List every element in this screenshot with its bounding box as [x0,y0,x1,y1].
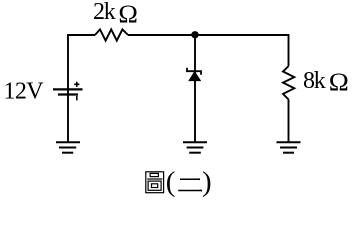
svg-text:12V: 12V [4,78,45,104]
wire top-right segment [195,34,289,36]
svg-text:): ) [202,166,212,198]
svg-text:Ω: Ω [118,0,138,28]
svg-text:(: ( [166,166,176,198]
resistor R2 8k ohm (vertical zigzag) [283,66,294,99]
wire right branch vertical upper [288,34,290,66]
wire top-left segment [68,34,95,36]
caption: character ER (two) drawn as strokes [178,179,202,190]
wire right branch vertical lower [288,99,290,142]
wire middle branch vertical [194,37,196,142]
ground (left) [56,142,80,152]
zener diode D1 cathode bar [187,68,201,75]
minus tick [76,96,78,101]
wire top-middle segment [128,34,195,36]
plus sign [74,82,79,87]
svg-text:8k: 8k [303,68,326,94]
zener diode D1 triangle (anode) [189,72,201,81]
battery V1 positive plate [53,88,83,90]
resistor R1 2k ohm (horizontal zigzag) [95,29,128,40]
svg-text:2k: 2k [93,0,116,25]
node A (junction dot) [191,31,198,38]
caption: ER stroke end serifs [198,178,201,180]
ground (right) [277,142,301,152]
battery V1 negative plate [58,93,78,95]
wire left branch vertical [67,34,69,142]
ground (middle) [183,142,207,152]
caption: character TU (figure) drawn as strokes [146,172,164,193]
svg-text:Ω: Ω [329,68,349,96]
